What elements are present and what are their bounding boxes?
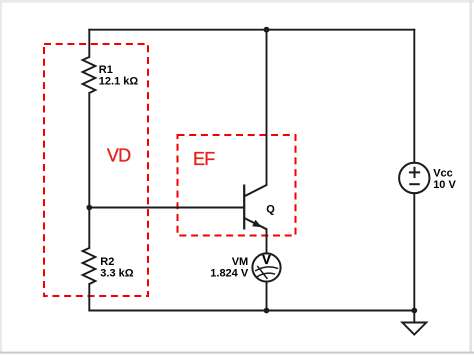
- region box EF: [178, 135, 296, 236]
- wire right rail upper: [413, 30, 415, 163]
- svg-text:12.1 kΩ: 12.1 kΩ: [99, 76, 139, 88]
- svg-text:3.3 kΩ: 3.3 kΩ: [100, 267, 133, 279]
- svg-text:R1: R1: [99, 64, 113, 76]
- wire voltmeter to bottom rail: [266, 282, 268, 311]
- wire emitter vertical: [266, 229, 268, 253]
- wire ground stub: [413, 311, 415, 323]
- frame right strip: [470, 0, 473, 353]
- frame top strip: [0, 0, 474, 3]
- wire right rail lower: [413, 193, 415, 310]
- svg-text:V: V: [262, 252, 271, 267]
- wire bottom rail right: [267, 310, 415, 312]
- frame left strip: [0, 0, 2, 353]
- source Vcc: [399, 163, 429, 193]
- wire left rail lower and bottom rail left: [89, 284, 266, 311]
- resistor R2: [83, 248, 96, 284]
- transistor Q: [244, 185, 266, 230]
- resistor R1: [83, 57, 96, 93]
- wire collector vertical: [266, 30, 268, 185]
- region box VD: [44, 44, 148, 296]
- node bottom right: [411, 308, 417, 314]
- svg-text:10 V: 10 V: [433, 179, 456, 191]
- voltmeter VM: [252, 252, 280, 282]
- svg-text:R2: R2: [100, 256, 114, 268]
- node base junction: [86, 205, 92, 211]
- svg-text:VM: VM: [232, 256, 249, 268]
- frame bottom line: [0, 352, 474, 354]
- svg-text:VD: VD: [107, 146, 131, 166]
- wire left rail middle (R1 to R2): [88, 93, 90, 248]
- wire left rail upper (top corner to R1): [88, 30, 90, 57]
- svg-text:EF: EF: [193, 149, 215, 169]
- svg-text:Q: Q: [266, 203, 275, 215]
- node top junction: [264, 27, 270, 33]
- svg-text:Vcc: Vcc: [433, 168, 453, 180]
- wire base: [89, 207, 244, 209]
- svg-text:1.824 V: 1.824 V: [210, 267, 249, 279]
- ground: [402, 323, 426, 335]
- wire top rail: [89, 29, 414, 31]
- node bottom middle: [264, 308, 270, 314]
